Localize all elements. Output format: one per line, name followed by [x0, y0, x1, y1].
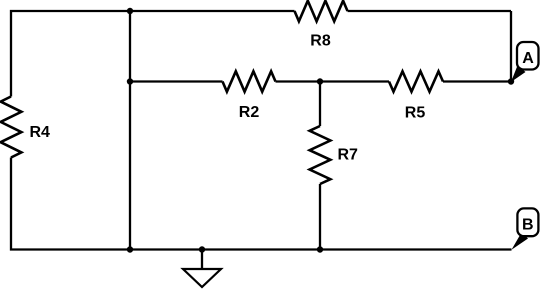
svg-text:R5: R5 — [405, 105, 426, 122]
svg-text:R2: R2 — [239, 104, 260, 121]
svg-text:R7: R7 — [338, 147, 359, 164]
svg-text:R4: R4 — [30, 124, 51, 141]
svg-text:A: A — [522, 50, 534, 67]
svg-text:B: B — [522, 217, 534, 234]
svg-text:R8: R8 — [310, 33, 331, 50]
